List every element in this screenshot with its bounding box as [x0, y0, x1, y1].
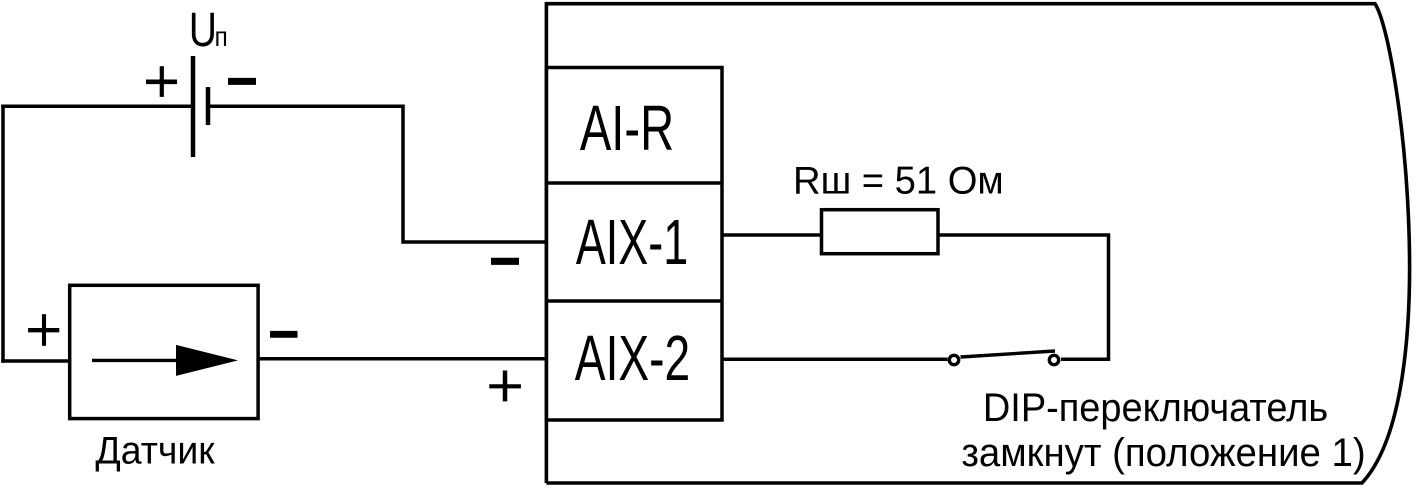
wire: battery minus to terminal AIX-1 [210, 106, 547, 242]
sensor minus sign [270, 331, 298, 338]
wire: left rail vertical [1, 105, 5, 363]
sensor current arrow head [176, 345, 238, 376]
device outline (module body with torn right edge) [546, 4, 1409, 483]
terminal block outline [547, 68, 723, 421]
battery U1 long plate (+) [191, 56, 196, 157]
minus sign at AIX-1 input [491, 258, 519, 265]
svg-text:Rш = 51 Ом: Rш = 51 Ом [793, 159, 1004, 202]
svg-text:AI-R: AI-R [580, 92, 674, 164]
svg-text:U: U [189, 3, 217, 57]
svg-text:п: п [215, 23, 228, 53]
switch S1 right contact [1049, 355, 1058, 364]
resistor Rш [822, 210, 939, 254]
wire: battery plus to left rail [1, 105, 191, 109]
battery plus sign [146, 80, 177, 85]
svg-text:замкнут (положение 1): замкнут (положение 1) [961, 432, 1365, 476]
terminal divider AIX-1 / AIX-2 [547, 299, 723, 303]
sensor box (Датчик) [70, 285, 258, 418]
wire: left rail to sensor plus [1, 359, 70, 363]
wire: resistor to switch branch [938, 235, 1109, 359]
switch S1 left contact [949, 355, 958, 364]
plus sign at AIX-2 input [489, 384, 521, 388]
svg-text:Датчик: Датчик [95, 429, 215, 473]
wire: AIX-2 to switch left contact [722, 358, 948, 362]
sensor plus sign [28, 328, 59, 332]
terminal divider AI-R / AIX-1 [547, 181, 723, 185]
switch S1 lever (closed) [961, 351, 1056, 357]
svg-text:DIP-переключатель: DIP-переключатель [983, 386, 1328, 430]
battery minus sign [228, 78, 256, 85]
battery U1 short plate (-) [206, 87, 211, 125]
wire: AIX-1 to shunt resistor [722, 233, 822, 237]
sensor current arrow line [92, 359, 185, 362]
svg-text:AIX-1: AIX-1 [576, 206, 688, 278]
wire: sensor minus to terminal AIX-2 [258, 357, 547, 361]
svg-text:AIX-2: AIX-2 [575, 321, 690, 393]
